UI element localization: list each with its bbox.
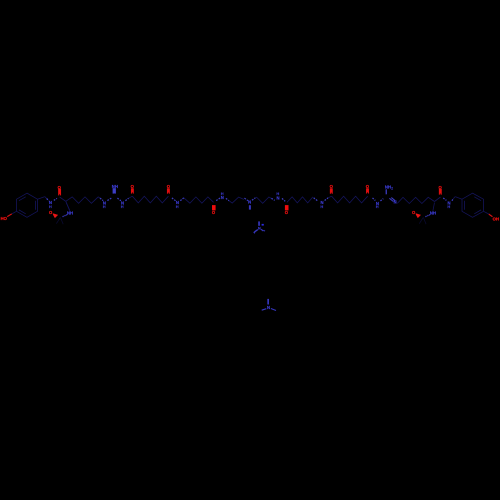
bond Nright-C3 bright [125, 198, 128, 200]
svg-text:NH: NH [112, 184, 118, 189]
ammonium fragment methyl bond up [258, 221, 260, 225]
svg-text:H: H [49, 204, 52, 209]
bond N6-C7 bright [325, 198, 328, 201]
C9=N8 double bond diagonal [389, 198, 395, 202]
C1=O1 double bond [58, 189, 61, 196]
bond CH2-N1 bright [47, 199, 49, 201]
ammonium fragment H mark lower-left [254, 232, 255, 233]
bond C1-alphaC [60, 197, 66, 201]
C6=O6 double bond down [285, 205, 289, 210]
svg-text:N: N [394, 200, 397, 205]
bond ring-OH bright red [489, 214, 493, 217]
ammonium fragment bond down-right faint ext [264, 230, 265, 231]
svg-text:H: H [221, 191, 224, 196]
svg-text:N: N [277, 196, 280, 201]
C3=O3 double bond [131, 188, 134, 193]
svg-text:N: N [221, 195, 224, 200]
ammonium fragment H+ mark [262, 224, 264, 226]
svg-text:H: H [447, 204, 450, 209]
svg-text:NH: NH [67, 210, 73, 215]
bond ring-OH dark part [483, 211, 488, 214]
bond NH-alphaC [66, 203, 70, 211]
acetyl C stub a [56, 217, 60, 223]
chain C6-N6 [287, 197, 313, 203]
bond into N5 bright [271, 198, 274, 200]
C5=O5 double bond down [212, 205, 216, 210]
bond C4-N2 bright [172, 198, 176, 201]
bond Cguan-Nleft bright [107, 198, 111, 201]
chain N2-C5 [184, 197, 214, 203]
ammonium fragment bond down-right [261, 229, 263, 231]
svg-text:NH: NH [385, 185, 391, 190]
acetyl right wedge bond [416, 213, 421, 218]
svg-text:H: H [276, 191, 279, 196]
bond into N6 bright [314, 198, 318, 201]
chain N3 to amine N4 [229, 197, 244, 203]
ring left inner aromatic lines [19, 197, 26, 201]
bond C8-N7 bright [373, 198, 376, 201]
bond N1-C1 bright [54, 198, 57, 200]
svg-text:HO: HO [1, 216, 8, 221]
svg-text:H: H [376, 204, 379, 209]
bond N4-chain right bright [252, 198, 255, 200]
bond N5-C6 bright [282, 198, 285, 201]
svg-text:H: H [121, 204, 124, 209]
bond O-ring dark part [12, 211, 17, 214]
bond NHright-alphaC [433, 203, 435, 211]
trimethylamine methyl bond up [267, 299, 269, 305]
bond N9-CH2 bright [452, 198, 454, 200]
C8=O8 double bond [366, 188, 369, 193]
svg-text:2: 2 [391, 187, 393, 191]
svg-text:N: N [248, 200, 251, 205]
svg-text:OH: OH [493, 217, 499, 222]
hashed bond C-NH acetamide right [426, 214, 431, 217]
bond NH2-C9 [385, 189, 387, 194]
bond ring-CH2 [37, 197, 44, 200]
hashed nubs into N4 [244, 198, 248, 201]
ring right inner aromatic lines [463, 201, 465, 210]
bond alphaC-NH [66, 201, 70, 210]
acetyl right C stub b [423, 217, 426, 224]
C7=O7 double bond [330, 188, 333, 194]
benzene ring right [462, 193, 483, 217]
acetyl right C stub a [419, 217, 423, 223]
svg-text:H: H [320, 204, 323, 209]
chain C7-C8 [332, 196, 368, 203]
bond alphaC-C10 [435, 197, 441, 202]
guanidine C=NH double bond [113, 188, 116, 193]
arginine side chain zigzag [66, 197, 100, 203]
bond C10-N9 bright [443, 198, 446, 200]
N4 methyl stub [249, 205, 251, 209]
bond N6-C7 dark part [328, 196, 332, 198]
hashed bond C-NH acetamide [63, 214, 68, 217]
svg-text:N: N [267, 305, 270, 310]
bond Cguan-Nright bright [117, 198, 121, 201]
bond N2-chain bright [180, 198, 184, 201]
C4=O4 double bond [167, 188, 170, 193]
bond N3-chain bright [226, 198, 229, 200]
bond O-ring bright red [7, 214, 12, 217]
ammonium fragment bond down-left [255, 230, 258, 232]
bond guanidineN-carbonyl dark part [129, 196, 133, 198]
trimethylamine bond down-right [271, 309, 276, 311]
acetyl C stub b [60, 217, 63, 224]
bond chain-guanidineNleft bright [100, 198, 103, 201]
svg-text:H: H [176, 204, 179, 209]
bond CH2-ring right [455, 197, 462, 200]
bond C5-N3 bright [216, 198, 220, 201]
chain N4-N5 [255, 197, 271, 203]
acetyl wedge bond O2-C [53, 213, 58, 218]
svg-text:NH: NH [430, 210, 436, 215]
svg-text:N: N [258, 226, 261, 230]
C10=O10 double bond [439, 189, 442, 195]
bond N7-C9 bright [380, 199, 383, 201]
chain imineN8-alphaC right [397, 197, 434, 203]
trimethylamine bond down-left [262, 309, 267, 311]
svg-text:H: H [103, 204, 106, 209]
benzene ring left [17, 193, 38, 217]
chain carbonyl3-carbonyl4 [132, 196, 168, 203]
